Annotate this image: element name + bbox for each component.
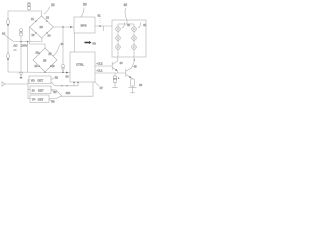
lamp L3 xyxy=(116,45,121,50)
wire boxB to U2 xyxy=(51,90,62,97)
svg-text:41: 41 xyxy=(127,23,131,27)
wire fuse2 down xyxy=(20,36,22,42)
diode D7 xyxy=(38,65,40,67)
diode D1 xyxy=(35,20,37,22)
svg-text:42: 42 xyxy=(143,23,147,27)
wire left vertical lower xyxy=(7,60,9,72)
zener VR1 xyxy=(114,73,116,76)
lamp L4 xyxy=(132,27,137,32)
svg-text:31: 31 xyxy=(98,14,102,18)
wire top bus xyxy=(8,9,29,11)
wire boxA to U2 xyxy=(51,82,78,86)
label mark xyxy=(14,49,17,51)
fuse F2 (mid symbol) xyxy=(20,29,23,36)
wire box1 out xyxy=(95,25,112,27)
junction xyxy=(27,41,29,43)
junction bridge2 bottom xyxy=(44,72,45,73)
ground G1 xyxy=(132,86,134,93)
svg-text:44: 44 xyxy=(120,61,124,65)
svg-text:27: 27 xyxy=(49,52,52,56)
leader label 16 xyxy=(5,35,13,42)
wire boxC to U2 xyxy=(49,82,93,99)
label 40 leader xyxy=(125,8,127,20)
diode D4 xyxy=(46,32,48,34)
lamp L2 xyxy=(116,36,121,41)
diode D8 xyxy=(50,65,52,67)
junction tick xyxy=(61,85,62,86)
box U1 (power supply) xyxy=(74,17,95,33)
diode D3 xyxy=(35,32,37,34)
wire bridge2 top feed xyxy=(30,44,46,48)
svg-text:25: 25 xyxy=(43,59,47,63)
svg-text:51: 51 xyxy=(55,76,59,80)
junction xyxy=(99,25,101,27)
diode D2 xyxy=(46,20,48,22)
lamp L5 xyxy=(132,36,137,41)
wire plug to bus xyxy=(5,83,28,85)
connector J1 xyxy=(62,65,65,73)
bridge BR1 diamond xyxy=(30,16,54,38)
junction xyxy=(20,41,22,43)
wire bridge1 out xyxy=(54,26,75,28)
switch S2 (left diamond lower) xyxy=(6,52,9,60)
label 30 leader xyxy=(81,8,84,18)
svg-text:45: 45 xyxy=(134,65,138,69)
label 41 leader xyxy=(122,23,125,29)
box B1 voltage detect xyxy=(29,76,51,83)
svg-text:10: 10 xyxy=(51,3,55,7)
arrow into box1 xyxy=(70,26,72,28)
ground G2 xyxy=(112,87,118,89)
wire lamp header xyxy=(118,23,134,25)
box B3 xyxy=(30,95,49,102)
svg-text:DET: DET xyxy=(38,79,44,83)
svg-text:50: 50 xyxy=(93,41,97,45)
svg-text:16: 16 xyxy=(2,32,6,36)
label 51 leader xyxy=(51,77,55,80)
wire top to bridge xyxy=(29,11,42,16)
svg-text:DET: DET xyxy=(38,98,44,102)
svg-text:ID: ID xyxy=(32,89,35,93)
wire base T1 xyxy=(95,65,112,67)
svg-text:22: 22 xyxy=(46,16,49,20)
svg-text:60: 60 xyxy=(66,75,70,79)
wire lamp col2 xyxy=(133,24,135,57)
label 49 leader xyxy=(53,45,60,57)
connector J2 below bus xyxy=(20,73,23,79)
junction dot at box2 xyxy=(73,82,74,83)
svg-text:SPS: SPS xyxy=(81,24,87,28)
wire left vertical mid xyxy=(7,26,9,52)
svg-text:40: 40 xyxy=(124,3,128,7)
transistor Q1 xyxy=(112,57,118,73)
svg-text:53: 53 xyxy=(52,100,56,104)
label 50 above box2 xyxy=(85,41,92,44)
svg-text:26: 26 xyxy=(36,51,39,55)
svg-text:29: 29 xyxy=(52,64,55,68)
svg-text:AC: AC xyxy=(14,44,18,48)
svg-text:23: 23 xyxy=(32,33,35,37)
wire lamp col1 xyxy=(117,24,119,57)
svg-text:24: 24 xyxy=(48,34,51,38)
label 53 leader xyxy=(49,100,52,102)
svg-text:DET: DET xyxy=(38,89,44,93)
label 42 leader xyxy=(138,23,141,29)
wire left links bus xyxy=(28,80,30,99)
svg-text:VD: VD xyxy=(31,79,35,83)
diode D5 xyxy=(38,52,40,54)
box U2 (control) xyxy=(70,52,95,82)
svg-text:30: 30 xyxy=(83,3,87,7)
svg-text:~CL1: ~CL1 xyxy=(96,69,103,73)
bridge BR2 diamond xyxy=(33,48,57,72)
junction tick xyxy=(66,85,67,86)
svg-text:CTRL: CTRL xyxy=(76,63,84,67)
switch S1 (left diamond upper) xyxy=(6,18,9,26)
label 47 leader xyxy=(95,82,100,87)
big box 40 (display) xyxy=(112,20,146,57)
wire ac mid bus xyxy=(13,38,42,42)
svg-text:46: 46 xyxy=(139,83,143,87)
svg-text:100V: 100V xyxy=(21,44,28,48)
svg-text:TP: TP xyxy=(32,98,36,102)
svg-text:20: 20 xyxy=(40,25,44,29)
wire stub down xyxy=(103,26,105,31)
fuse F1 (top symbol) xyxy=(28,2,31,9)
label 52 leader xyxy=(51,90,54,92)
wire junction down xyxy=(62,27,64,65)
lamp L6 xyxy=(132,45,137,50)
wire bottom-left bus xyxy=(8,71,70,74)
svg-text:49: 49 xyxy=(61,42,64,46)
svg-text:21: 21 xyxy=(31,17,34,21)
svg-text:~CL2: ~CL2 xyxy=(96,62,103,66)
wire mid verticals xyxy=(20,42,22,73)
transistor Q2 xyxy=(126,57,134,79)
wire left vertical upper xyxy=(7,11,9,18)
junction xyxy=(62,26,64,28)
wire base T2 xyxy=(95,72,126,74)
wire box1 to box2 xyxy=(73,33,75,52)
junction dot at box2 xyxy=(77,82,78,83)
label 10 leader xyxy=(44,7,50,15)
svg-text:47: 47 xyxy=(100,86,104,90)
svg-text:40b: 40b xyxy=(66,91,71,95)
arrow into control box xyxy=(66,72,68,74)
lamp L1 xyxy=(116,27,121,32)
diode D6 xyxy=(50,52,52,54)
plug P2 bottom left xyxy=(2,82,5,86)
box B2 xyxy=(30,86,51,93)
resistor R1 xyxy=(131,79,135,86)
